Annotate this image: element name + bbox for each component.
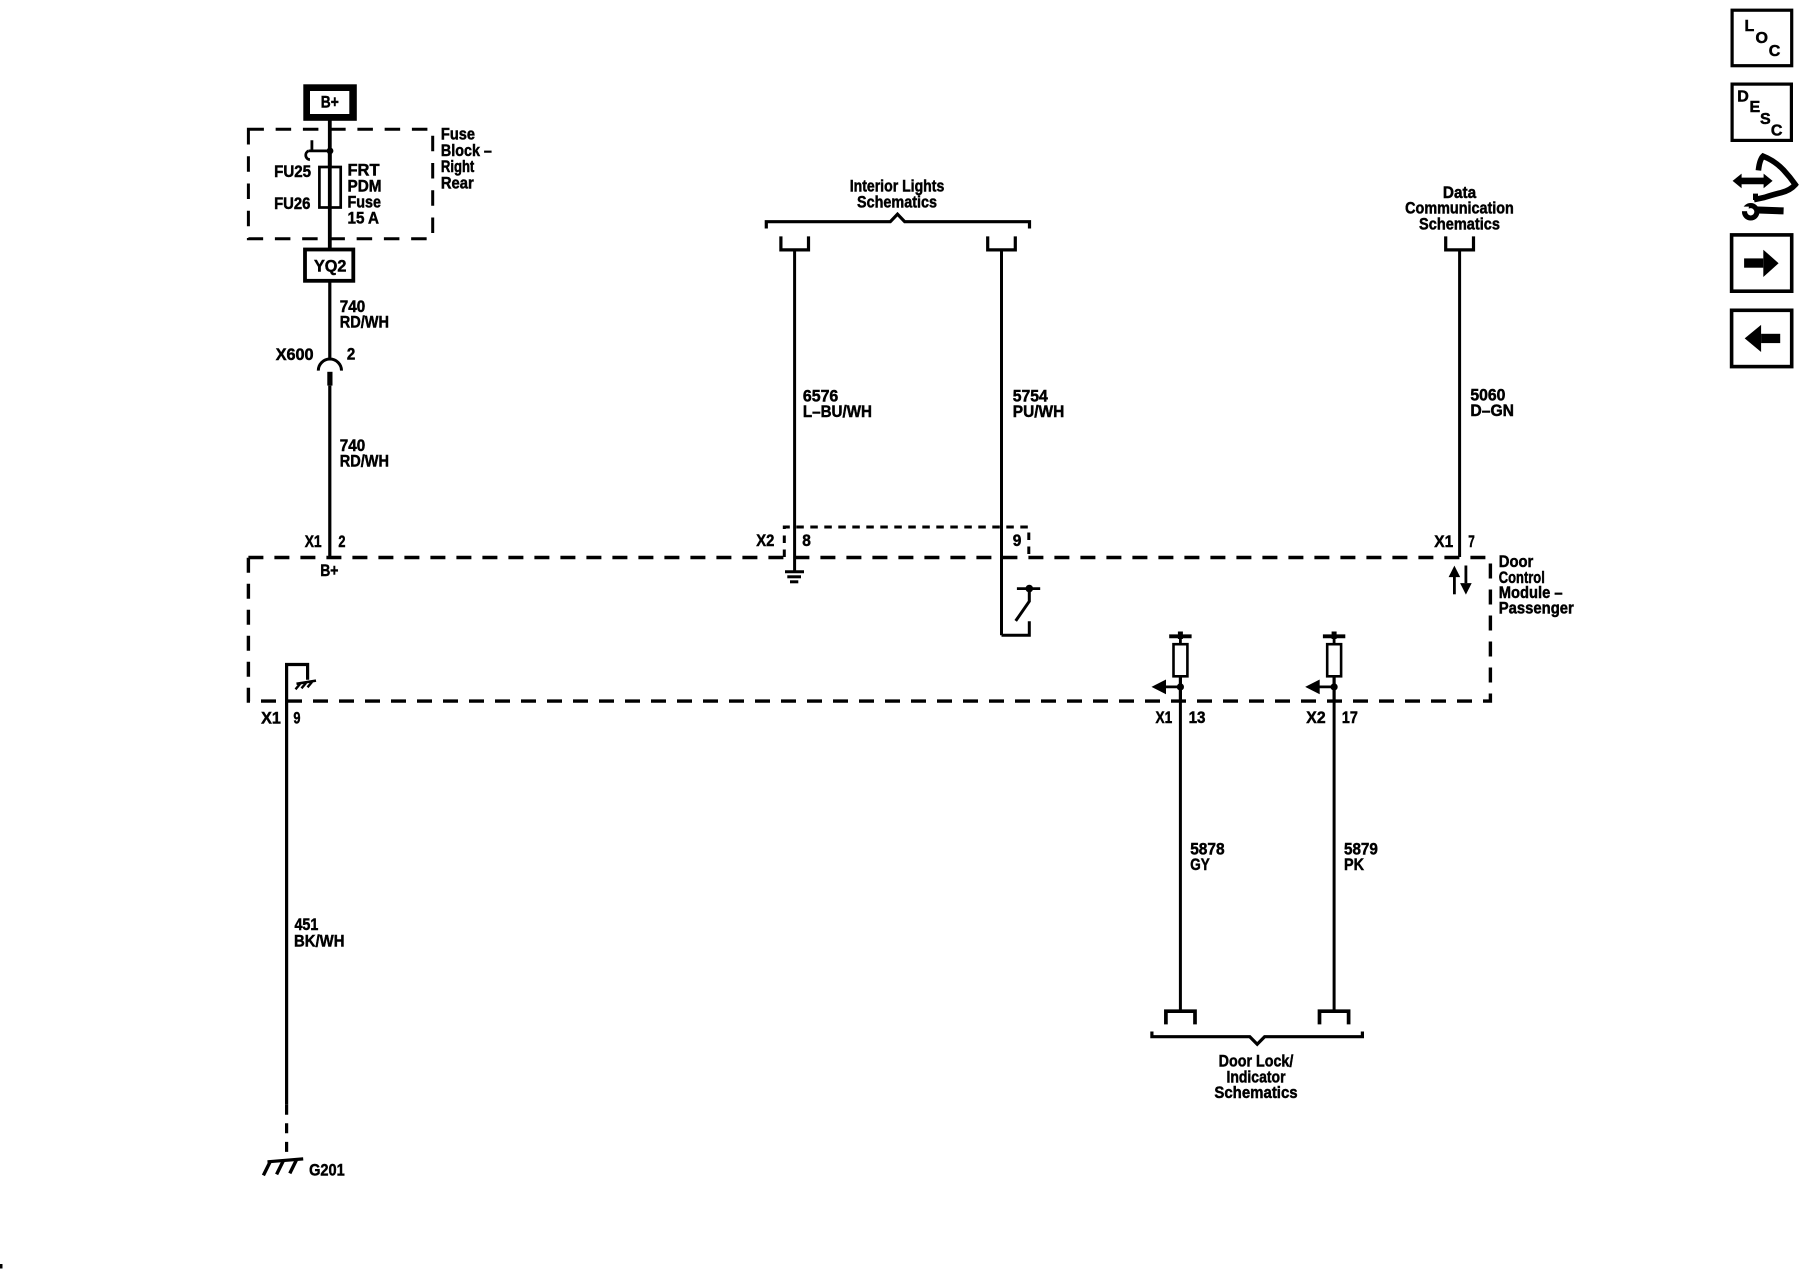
connector YQ2: [305, 250, 353, 281]
svg-text:X1: X1: [1434, 532, 1453, 551]
svg-text:2: 2: [338, 532, 345, 551]
svg-text:L: L: [1745, 18, 1755, 35]
junction dot: [327, 148, 334, 155]
svg-text:BK/WH: BK/WH: [294, 932, 345, 951]
svg-text:FU26: FU26: [274, 194, 310, 213]
resistor at pin X2 17: [1323, 632, 1345, 703]
svg-text:9: 9: [293, 709, 300, 728]
svg-text:Schematics: Schematics: [857, 192, 937, 211]
svg-text:Schematics: Schematics: [1214, 1083, 1297, 1102]
svg-text:RD/WH: RD/WH: [340, 313, 389, 332]
wire 5878 GY: [1179, 702, 1182, 1011]
svg-text:Passenger: Passenger: [1499, 599, 1574, 618]
off-page connector right: [988, 236, 1016, 250]
off-page connector bottom left: [1166, 1011, 1195, 1024]
fuse block name label: [441, 125, 492, 193]
svg-text:RD/WH: RD/WH: [340, 452, 389, 471]
serial data double arrow inside module: [1449, 566, 1472, 595]
ground G201: [263, 1159, 344, 1180]
forward arrow icon box: [1732, 235, 1792, 291]
Data Communication Schematics header: [1405, 183, 1514, 234]
door lock brace: [1152, 1032, 1363, 1045]
svg-text:O: O: [1756, 30, 1768, 47]
back arrow icon box: [1732, 310, 1792, 366]
svg-text:L–BU/WH: L–BU/WH: [803, 402, 872, 421]
X2 connector dotted strip: [784, 527, 1029, 557]
svg-text:GY: GY: [1190, 855, 1210, 874]
svg-text:D–GN: D–GN: [1470, 401, 1514, 420]
repair instructions icon (arrows and wrench): [1733, 156, 1796, 218]
off-page connector bottom right: [1320, 1011, 1349, 1024]
switch inside module at pin 9: [1002, 585, 1041, 636]
module name label: [1499, 552, 1574, 618]
svg-text:Schematics: Schematics: [1419, 215, 1500, 234]
svg-text:2: 2: [347, 345, 355, 364]
svg-text:7: 7: [1468, 532, 1475, 551]
wire 740 RD/WH lower: [328, 386, 331, 557]
svg-text:PK: PK: [1344, 855, 1365, 874]
svg-text:FU25: FU25: [274, 162, 311, 181]
svg-text:YQ2: YQ2: [314, 256, 347, 275]
internal ground at pin X1 9: [287, 665, 308, 703]
svg-text:9: 9: [1013, 531, 1022, 550]
svg-text:Rear: Rear: [441, 173, 474, 192]
wire 5879 PK: [1333, 702, 1336, 1011]
wire 5060 D-GN: [1458, 252, 1461, 558]
svg-text:G201: G201: [309, 1161, 345, 1180]
svg-text:D: D: [1737, 89, 1749, 106]
resistor at pin X1 13: [1169, 632, 1191, 703]
wire 6576 L-BU/WH: [793, 252, 796, 571]
svg-text:E: E: [1750, 99, 1761, 116]
svg-text:B+: B+: [321, 93, 339, 112]
svg-text:X2: X2: [1306, 708, 1325, 727]
fuse block dashed box: [248, 129, 432, 238]
wire 451 BK/WH: [285, 702, 288, 1105]
inline connector X600 pin 2: [276, 345, 356, 386]
svg-text:PU/WH: PU/WH: [1013, 402, 1065, 421]
wire 740 RD/WH upper: [328, 279, 331, 359]
LOC icon box: [1732, 10, 1792, 65]
fuse FU25/FU26 FRT PDM Fuse 15 A: [319, 167, 340, 208]
DESC icon box: [1732, 84, 1791, 140]
svg-text:8: 8: [802, 531, 811, 550]
svg-text:S: S: [1760, 111, 1771, 128]
svg-text:C: C: [1771, 123, 1783, 140]
svg-text:X2: X2: [756, 531, 774, 550]
chassis hatch symbol: [296, 681, 317, 690]
wire B+ feed into fuse block: [328, 118, 332, 167]
svg-text:X1: X1: [261, 709, 281, 728]
interior lights brace: [766, 214, 1029, 228]
svg-text:X1: X1: [305, 532, 322, 551]
off-page connector data comm: [1446, 236, 1474, 250]
Door Control Module - Passenger dashed outline: [248, 558, 1490, 702]
Interior Lights Schematics header: [850, 176, 945, 211]
svg-text:C: C: [1769, 43, 1781, 60]
svg-text:13: 13: [1189, 708, 1206, 727]
svg-text:B+: B+: [320, 561, 338, 580]
svg-text:17: 17: [1342, 708, 1358, 727]
svg-text:X600: X600: [276, 345, 314, 364]
signal arrow at X1 13: [1152, 680, 1185, 695]
ground symbol inside module at pin 8: [785, 572, 804, 582]
power symbol B+: [303, 84, 357, 121]
wire through fuse: [328, 151, 332, 251]
off-page connector left: [781, 236, 809, 250]
svg-text:15 A: 15 A: [348, 208, 380, 227]
stub branch to second fuse position: [306, 140, 330, 159]
signal arrow at X2 17: [1305, 680, 1338, 695]
dashed wire segment to G201: [285, 1105, 288, 1157]
page corner mark: [0, 1264, 3, 1269]
Door Lock/Indicator Schematics label: [1214, 1051, 1297, 1102]
wire 5754 PU/WH: [1000, 252, 1003, 636]
svg-text:X1: X1: [1156, 708, 1173, 727]
